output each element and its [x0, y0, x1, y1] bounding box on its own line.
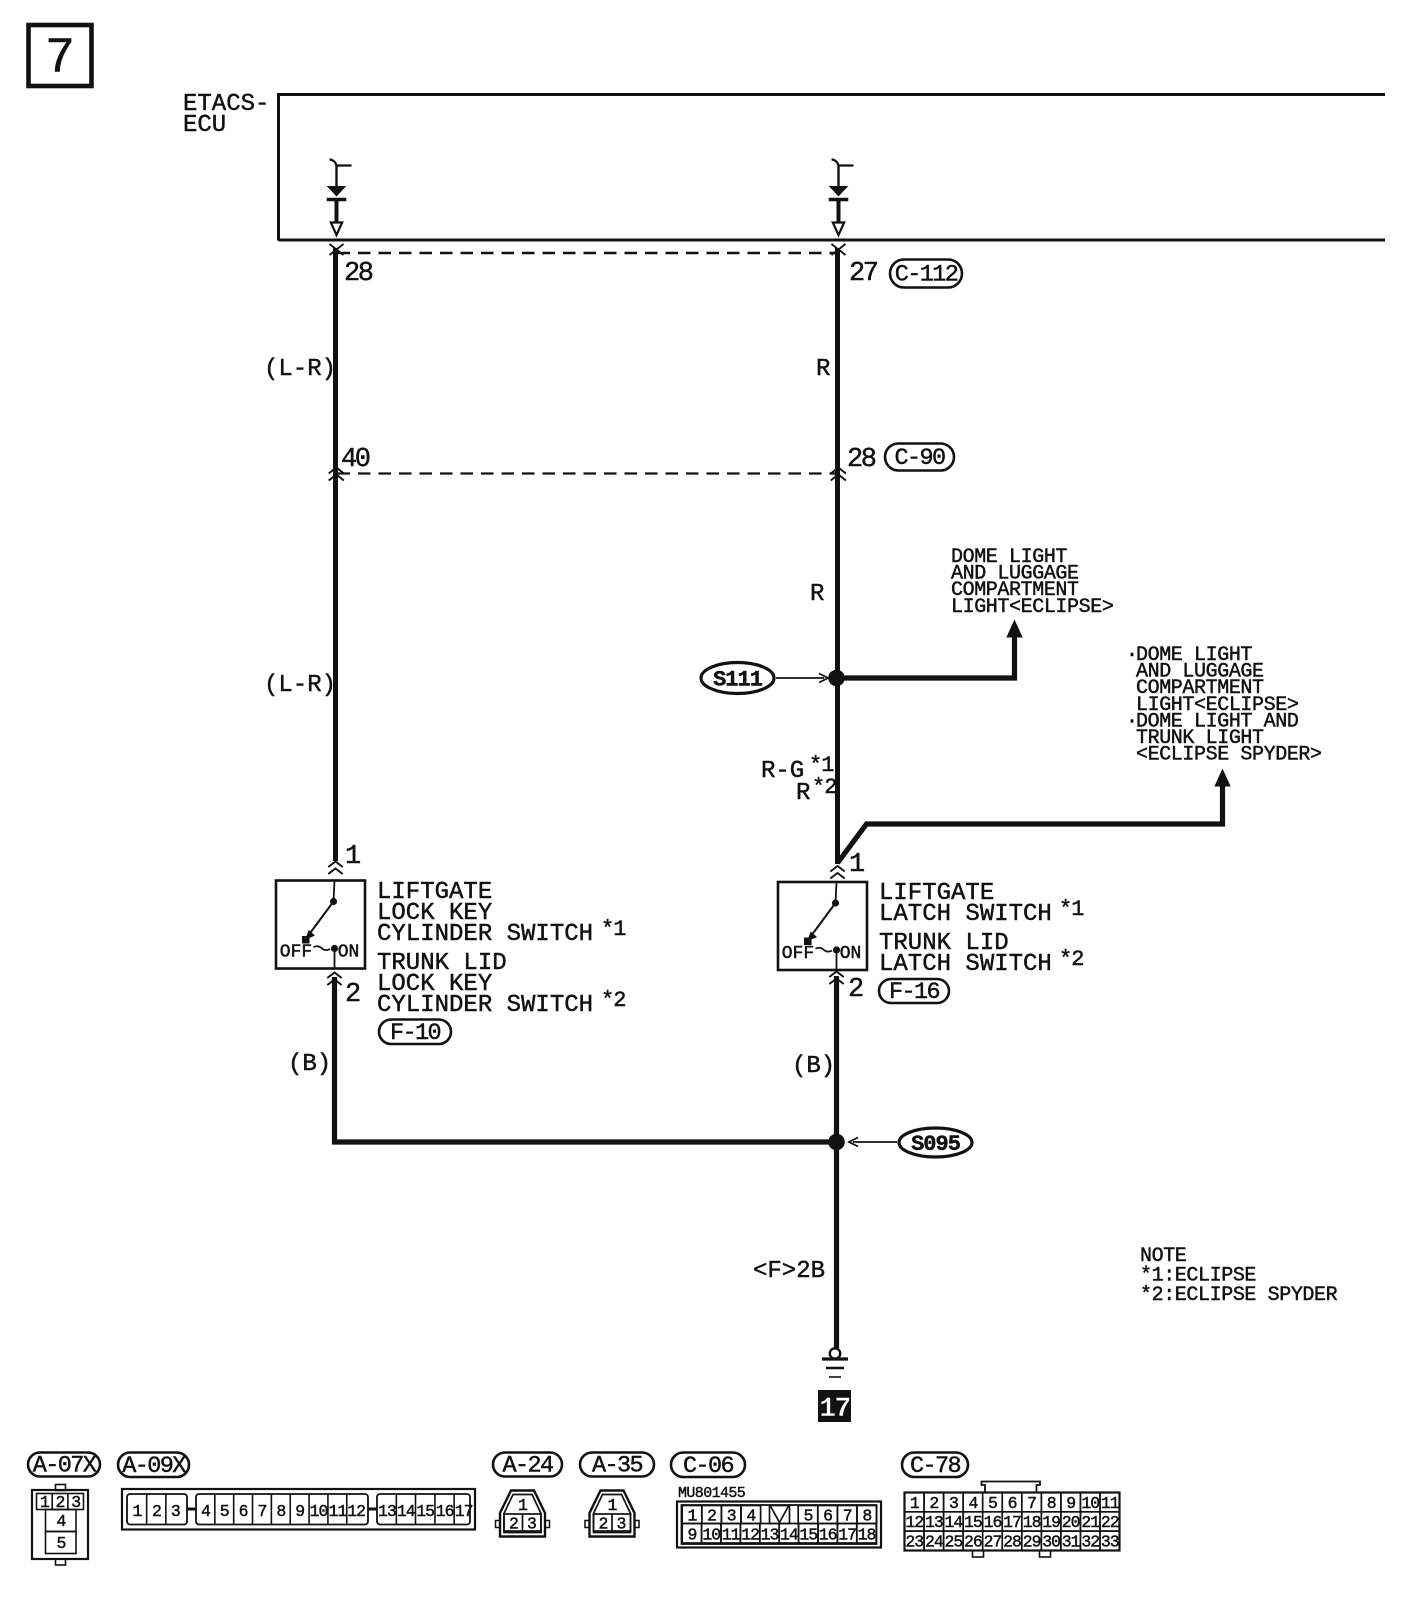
wire: left (L-R) vertical from ECU to liftgate lock switch pin 1 — [333, 248, 338, 861]
wire label (L-R) lower — [264, 672, 336, 699]
label: dome light notes (eclipse / eclipse spyder) — [1126, 644, 1322, 767]
svg-text:13: 13 — [925, 1513, 943, 1532]
connector label A-24 — [493, 1453, 562, 1480]
svg-text:3: 3 — [171, 1502, 180, 1521]
svg-text:2: 2 — [929, 1494, 938, 1513]
svg-text:(L-R): (L-R) — [264, 356, 336, 383]
svg-text:9: 9 — [1066, 1494, 1075, 1513]
svg-text:1: 1 — [518, 1496, 528, 1515]
svg-text:15: 15 — [799, 1526, 817, 1545]
svg-text:15: 15 — [964, 1513, 982, 1532]
pin label 1 left switch — [345, 842, 360, 872]
ETACS-ECU box — [279, 95, 1386, 241]
svg-text:F-10: F-10 — [390, 1020, 441, 1047]
label: dome light and luggage compartment light (eclipse) — [951, 546, 1113, 619]
junction node S111 on right wire — [828, 670, 845, 687]
svg-text:2: 2 — [848, 975, 863, 1005]
svg-text:10: 10 — [702, 1526, 720, 1545]
svg-text:OFF: OFF — [280, 943, 312, 963]
pin label 27 (right wire top) — [849, 259, 878, 289]
wire: branch to dome light (eclipse) — [838, 634, 1015, 678]
svg-text:3: 3 — [617, 1515, 626, 1534]
diode D1 inside ECU (left) — [327, 160, 352, 236]
svg-text:5: 5 — [988, 1494, 997, 1513]
junction node S095 — [828, 1134, 845, 1151]
svg-text:27: 27 — [849, 259, 878, 289]
connector label C-06 — [671, 1453, 745, 1480]
wire: right switch pin 2 down to ground — [834, 976, 839, 1348]
svg-text:9: 9 — [295, 1502, 304, 1521]
svg-text:1: 1 — [132, 1502, 142, 1521]
connector pin mark C-90 pin 28 (right wire) — [831, 468, 846, 481]
svg-text:4: 4 — [201, 1502, 211, 1521]
svg-text:*2:ECLIPSE SPYDER: *2:ECLIPSE SPYDER — [1140, 1284, 1338, 1307]
arrowhead to spyder dome light text — [1214, 769, 1230, 787]
svg-text:21: 21 — [1081, 1513, 1100, 1532]
svg-text:9: 9 — [687, 1526, 696, 1545]
svg-text:R: R — [810, 581, 824, 608]
connector A-35 pinout — [585, 1491, 639, 1537]
wire label (B) right — [792, 1053, 835, 1080]
svg-text:A-09X: A-09X — [122, 1453, 186, 1480]
pin mark 2 right switch — [829, 972, 843, 985]
connector C-78 pinout — [905, 1482, 1120, 1558]
svg-text:14: 14 — [397, 1502, 416, 1521]
svg-text:20: 20 — [1062, 1513, 1080, 1532]
svg-text:23: 23 — [905, 1532, 923, 1551]
svg-text:10: 10 — [1081, 1494, 1099, 1513]
svg-text:19: 19 — [1042, 1513, 1060, 1532]
svg-text:27: 27 — [984, 1532, 1002, 1551]
svg-text:13: 13 — [761, 1526, 779, 1545]
svg-text:LATCH SWITCH: LATCH SWITCH — [879, 951, 1052, 978]
svg-text:ON: ON — [840, 944, 862, 964]
svg-text:4: 4 — [968, 1494, 978, 1513]
svg-text:14: 14 — [780, 1526, 799, 1545]
dashed connector line C-112 — [338, 252, 838, 254]
svg-text:7: 7 — [1027, 1494, 1036, 1513]
connector C-06 pinout — [677, 1502, 881, 1548]
svg-text:ON: ON — [338, 943, 360, 963]
svg-text:5: 5 — [57, 1534, 66, 1553]
svg-text:30: 30 — [1042, 1532, 1060, 1551]
wire label R middle — [810, 581, 824, 608]
svg-text:31: 31 — [1062, 1532, 1081, 1551]
svg-text:*1: *1 — [601, 917, 626, 942]
svg-text:12: 12 — [347, 1502, 365, 1521]
svg-text:S111: S111 — [713, 668, 763, 693]
svg-text:12: 12 — [905, 1513, 923, 1532]
pin mark 1 left switch — [328, 862, 342, 875]
connector label F-10 — [379, 1020, 451, 1047]
wire label R-G*1 / R*2 — [761, 753, 836, 807]
svg-text:28: 28 — [344, 259, 373, 289]
svg-text:32: 32 — [1081, 1532, 1099, 1551]
pin mark 2 left switch — [327, 973, 341, 986]
wire label (F)2B — [753, 1258, 825, 1285]
svg-text:*2: *2 — [1059, 947, 1083, 972]
svg-text:<F>2B: <F>2B — [753, 1258, 825, 1285]
svg-text:3: 3 — [527, 1515, 536, 1534]
svg-text:LIGHT<ECLIPSE>: LIGHT<ECLIPSE> — [951, 596, 1113, 619]
svg-text:15: 15 — [416, 1502, 434, 1521]
svg-text:(L-R): (L-R) — [264, 672, 336, 699]
svg-text:17: 17 — [819, 1394, 850, 1425]
connector label C-112 — [890, 260, 962, 289]
svg-text:(B): (B) — [792, 1053, 835, 1080]
connector label A-35 — [580, 1453, 654, 1480]
svg-text:29: 29 — [1023, 1532, 1041, 1551]
svg-text:S095: S095 — [911, 1132, 961, 1157]
svg-text:A-07X: A-07X — [33, 1453, 97, 1480]
ground symbol — [822, 1348, 848, 1377]
svg-text:C-90: C-90 — [894, 445, 945, 472]
svg-text:R: R — [816, 356, 830, 383]
svg-text:5: 5 — [220, 1502, 229, 1521]
label: liftgate latch switch / trunk lid latch switch — [879, 880, 1084, 978]
ground reference 17 — [818, 1390, 851, 1425]
dashed connector line C-90 — [338, 472, 838, 474]
svg-text:2: 2 — [345, 980, 360, 1010]
svg-text:1: 1 — [910, 1494, 920, 1513]
svg-text:F-16: F-16 — [889, 979, 940, 1006]
pin label 2 left switch — [345, 980, 360, 1010]
svg-text:8: 8 — [276, 1502, 285, 1521]
svg-text:7: 7 — [257, 1502, 266, 1521]
svg-text:22: 22 — [1101, 1513, 1119, 1532]
svg-text:C-06: C-06 — [683, 1453, 734, 1480]
svg-text:6: 6 — [1008, 1494, 1017, 1513]
svg-text:28: 28 — [1003, 1532, 1021, 1551]
svg-text:<ECLIPSE SPYDER>: <ECLIPSE SPYDER> — [1136, 744, 1322, 767]
svg-text:18: 18 — [858, 1526, 876, 1545]
wire: right R vertical from ECU to latch switch pin 1 — [835, 248, 840, 864]
svg-text:16: 16 — [819, 1526, 837, 1545]
svg-text:(B): (B) — [288, 1051, 331, 1078]
svg-text:12: 12 — [741, 1526, 759, 1545]
pin label 28 (left wire top) — [344, 259, 373, 289]
svg-text:MU801455: MU801455 — [678, 1485, 746, 1502]
wire label R upper — [816, 356, 830, 383]
pin mark 1 right switch — [830, 866, 844, 879]
liftgate latch switch (right) — [778, 882, 867, 970]
svg-text:R: R — [796, 780, 810, 807]
svg-text:1: 1 — [345, 842, 360, 872]
svg-text:*2: *2 — [812, 775, 836, 800]
pin label 2 right switch — [848, 975, 863, 1005]
note block — [1140, 1245, 1338, 1307]
svg-text:11: 11 — [722, 1526, 741, 1545]
diode D2 inside ECU (right) — [829, 160, 854, 236]
svg-text:2: 2 — [509, 1515, 518, 1534]
connector label A-07X — [28, 1453, 100, 1480]
svg-text:26: 26 — [964, 1532, 982, 1551]
svg-text:40: 40 — [341, 445, 370, 475]
svg-text:16: 16 — [984, 1513, 1002, 1532]
svg-text:ECU: ECU — [183, 112, 226, 139]
pin label 40 — [341, 445, 370, 475]
connector A-07X pinout — [32, 1485, 88, 1566]
svg-text:C-112: C-112 — [895, 262, 958, 289]
part number MU801455 — [678, 1485, 746, 1502]
svg-text:28: 28 — [847, 445, 876, 475]
svg-text:18: 18 — [1023, 1513, 1041, 1532]
connector label C-90 — [885, 444, 954, 473]
svg-text:A-35: A-35 — [592, 1453, 643, 1480]
wire label (L-R) upper — [264, 356, 336, 383]
svg-text:8: 8 — [1047, 1494, 1056, 1513]
svg-text:3: 3 — [949, 1494, 958, 1513]
svg-text:33: 33 — [1101, 1532, 1119, 1551]
connector pin mark C-90 pin 40 (left wire) — [329, 468, 344, 481]
svg-text:*2: *2 — [601, 988, 625, 1013]
pin label 1 right switch — [849, 850, 864, 880]
arrow from S095 to junction — [849, 1138, 897, 1147]
ETACS-ECU label — [183, 91, 269, 139]
frame number box 7 — [29, 25, 92, 88]
svg-text:2: 2 — [599, 1515, 608, 1534]
liftgate lock key cylinder switch (left) — [276, 881, 365, 969]
wire: left switch pin 2 down and right to splice S095 — [335, 977, 837, 1142]
arrow from S111 to junction — [776, 674, 828, 683]
connector pin mark C-112 pin 28 (left wire) — [330, 244, 344, 255]
connector label A-09X — [118, 1453, 189, 1480]
svg-text:6: 6 — [239, 1502, 248, 1521]
svg-text:10: 10 — [310, 1502, 328, 1521]
svg-text:14: 14 — [944, 1513, 963, 1532]
arrowhead to dome light text — [1006, 620, 1022, 638]
svg-text:2: 2 — [152, 1502, 161, 1521]
svg-text:11: 11 — [1101, 1494, 1120, 1513]
pin label 28 (C-90) — [847, 445, 876, 475]
splice S095 — [899, 1128, 972, 1157]
svg-text:1: 1 — [849, 850, 864, 880]
svg-text:C-78: C-78 — [910, 1453, 961, 1480]
connector label F-16 — [879, 979, 949, 1006]
svg-text:CYLINDER SWITCH: CYLINDER SWITCH — [377, 921, 593, 948]
connector A-09X pinout — [122, 1489, 475, 1530]
svg-text:*1: *1 — [1059, 897, 1084, 922]
svg-text:7: 7 — [45, 31, 75, 88]
splice S111 — [701, 663, 774, 694]
svg-text:13: 13 — [378, 1502, 396, 1521]
svg-text:24: 24 — [925, 1532, 944, 1551]
connector label C-78 — [902, 1453, 968, 1480]
svg-text:LATCH SWITCH: LATCH SWITCH — [879, 901, 1052, 928]
svg-text:1: 1 — [608, 1496, 618, 1515]
connector pin mark C-112 pin 27 (right wire) — [832, 244, 846, 255]
connector A-24 pinout — [496, 1491, 550, 1537]
svg-text:25: 25 — [944, 1532, 962, 1551]
svg-text:A-24: A-24 — [502, 1453, 553, 1480]
wire label (B) left — [288, 1051, 331, 1078]
svg-text:CYLINDER SWITCH: CYLINDER SWITCH — [377, 992, 593, 1019]
label: liftgate lock key cylinder switch / trunk lid lock key cylinder switch — [377, 879, 626, 1019]
wire: branch to dome light and trunk light (spyder) — [838, 783, 1223, 863]
svg-text:11: 11 — [328, 1502, 347, 1521]
svg-text:4: 4 — [57, 1512, 67, 1531]
svg-text:17: 17 — [1003, 1513, 1021, 1532]
svg-text:17: 17 — [838, 1526, 856, 1545]
svg-text:OFF: OFF — [782, 944, 814, 964]
svg-text:17: 17 — [455, 1502, 473, 1521]
svg-text:16: 16 — [436, 1502, 454, 1521]
